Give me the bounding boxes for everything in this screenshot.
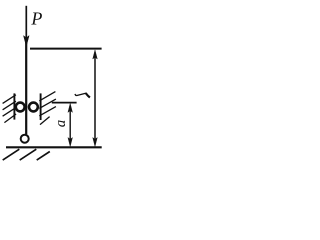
top reference line	[30, 48, 102, 50]
svg-text:a: a	[53, 120, 69, 128]
rod	[25, 42, 27, 134]
right wall hatching	[39, 92, 56, 125]
ground line	[6, 146, 102, 148]
a dimension tick line	[52, 102, 77, 104]
force P arrow	[24, 6, 30, 46]
label l (rotated)	[75, 93, 90, 98]
svg-text:P: P	[30, 9, 42, 29]
ground hatching	[3, 149, 50, 160]
pin circle	[21, 135, 29, 143]
right wall	[40, 93, 42, 120]
roller circle left	[16, 103, 25, 112]
left wall	[13, 93, 15, 119]
roller circle right	[29, 103, 38, 112]
left wall hatching	[3, 95, 17, 123]
dimension a line with arrows	[68, 103, 73, 146]
dimension l line with arrows	[93, 50, 98, 147]
